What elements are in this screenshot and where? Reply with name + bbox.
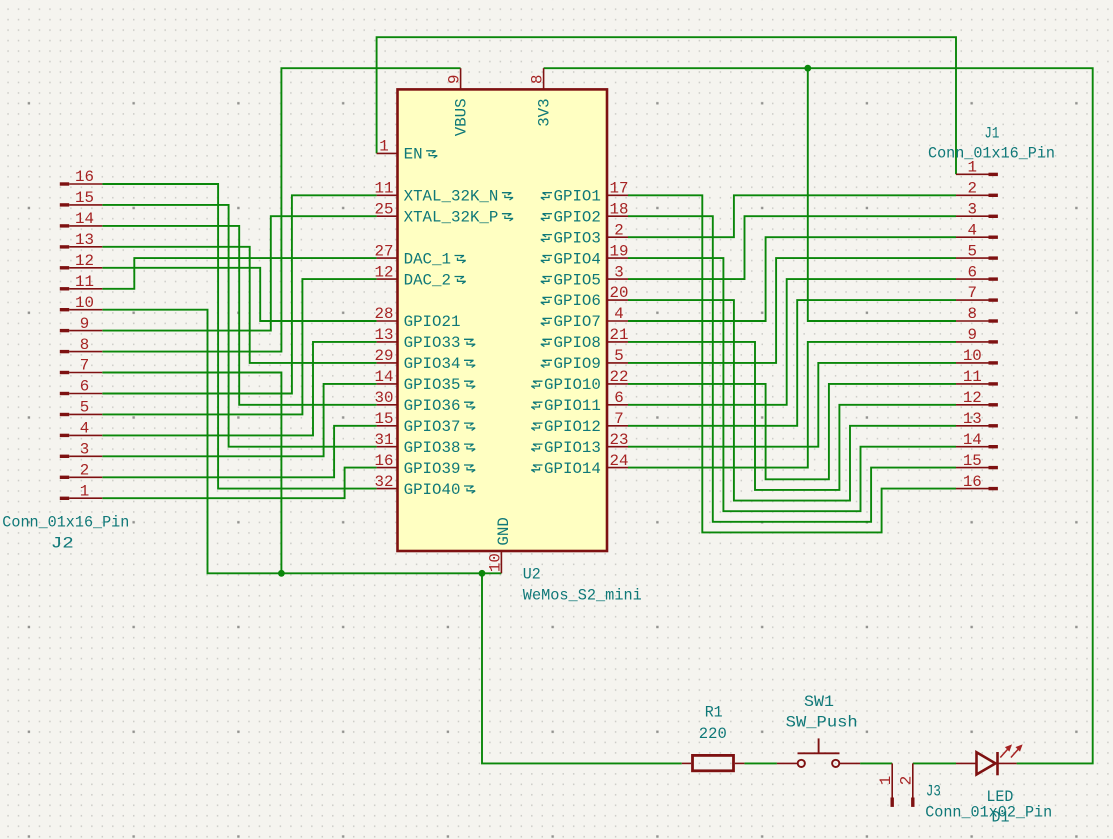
svg-text:7: 7: [80, 357, 89, 375]
svg-text:11: 11: [963, 368, 982, 386]
svg-text:J3: J3: [926, 783, 941, 801]
svg-text:SW1: SW1: [804, 693, 834, 711]
svg-text:30: 30: [375, 389, 394, 407]
svg-text:3V3: 3V3: [535, 98, 553, 126]
svg-text:10: 10: [75, 294, 94, 312]
svg-text:9: 9: [968, 326, 977, 344]
svg-text:1: 1: [80, 482, 89, 500]
svg-text:Conn_01x16_Pin: Conn_01x16_Pin: [2, 513, 129, 531]
svg-text:11: 11: [75, 273, 94, 291]
svg-text:15: 15: [75, 189, 94, 207]
svg-text:D1: D1: [992, 809, 1010, 827]
svg-text:XTAL_32K_N: XTAL_32K_N: [404, 188, 499, 206]
svg-text:Conn_01x16_Pin: Conn_01x16_Pin: [928, 145, 1055, 163]
svg-text:8: 8: [968, 305, 977, 323]
svg-text:18: 18: [610, 200, 629, 218]
svg-text:GPIO5: GPIO5: [553, 271, 600, 289]
svg-text:GPIO35: GPIO35: [404, 376, 461, 394]
svg-text:GPIO21: GPIO21: [404, 313, 461, 331]
svg-text:31: 31: [375, 431, 394, 449]
svg-text:GPIO8: GPIO8: [553, 334, 600, 352]
svg-text:XTAL_32K_P: XTAL_32K_P: [404, 208, 499, 226]
svg-text:GPIO12: GPIO12: [544, 418, 601, 436]
svg-text:6: 6: [968, 263, 977, 281]
svg-text:16: 16: [375, 452, 394, 470]
svg-text:19: 19: [610, 242, 629, 260]
svg-text:GPIO3: GPIO3: [553, 229, 600, 247]
svg-text:Conn_01x02_Pin: Conn_01x02_Pin: [925, 804, 1052, 822]
svg-text:10: 10: [963, 347, 982, 365]
svg-text:VBUS: VBUS: [452, 98, 470, 136]
svg-text:GPIO38: GPIO38: [404, 439, 461, 457]
svg-text:GPIO36: GPIO36: [404, 397, 461, 415]
svg-text:3: 3: [968, 200, 977, 218]
svg-text:GPIO39: GPIO39: [404, 460, 461, 478]
svg-text:4: 4: [968, 221, 977, 239]
svg-text:GPIO40: GPIO40: [404, 481, 461, 499]
svg-text:5: 5: [80, 399, 89, 417]
svg-text:14: 14: [963, 431, 982, 449]
svg-text:9: 9: [80, 315, 89, 333]
svg-text:GPIO34: GPIO34: [404, 355, 461, 373]
svg-text:EN: EN: [404, 146, 423, 164]
svg-text:14: 14: [75, 210, 94, 228]
svg-text:6: 6: [80, 378, 89, 396]
svg-text:21: 21: [610, 326, 629, 344]
svg-text:LED: LED: [986, 788, 1013, 806]
svg-text:GPIO14: GPIO14: [544, 460, 601, 478]
svg-text:16: 16: [75, 168, 94, 186]
svg-text:4: 4: [80, 420, 89, 438]
svg-text:GPIO13: GPIO13: [544, 439, 601, 457]
svg-text:13: 13: [75, 231, 94, 249]
svg-text:2: 2: [968, 180, 977, 198]
svg-text:4: 4: [614, 305, 623, 323]
svg-text:SW_Push: SW_Push: [786, 714, 858, 732]
svg-text:25: 25: [375, 200, 394, 218]
svg-text:J1: J1: [984, 124, 999, 142]
svg-text:GPIO1: GPIO1: [553, 188, 600, 206]
svg-text:16: 16: [963, 473, 982, 491]
svg-text:29: 29: [375, 347, 394, 365]
svg-text:8: 8: [80, 336, 89, 354]
svg-text:15: 15: [963, 452, 982, 470]
svg-text:U2: U2: [523, 565, 541, 583]
svg-text:GPIO33: GPIO33: [404, 334, 461, 352]
svg-text:13: 13: [963, 410, 982, 428]
svg-text:22: 22: [610, 368, 629, 386]
svg-text:GPIO6: GPIO6: [553, 292, 600, 310]
svg-text:13: 13: [375, 326, 394, 344]
svg-text:GPIO4: GPIO4: [553, 250, 600, 268]
svg-text:7: 7: [614, 410, 623, 428]
svg-text:J2: J2: [51, 534, 74, 552]
svg-text:1: 1: [877, 776, 895, 785]
svg-text:11: 11: [375, 180, 394, 198]
svg-text:GPIO10: GPIO10: [544, 376, 601, 394]
svg-text:32: 32: [375, 473, 394, 491]
svg-text:GPIO11: GPIO11: [544, 397, 601, 415]
svg-text:7: 7: [968, 284, 977, 302]
svg-text:GPIO37: GPIO37: [404, 418, 461, 436]
svg-text:6: 6: [614, 389, 623, 407]
svg-text:DAC_1: DAC_1: [404, 250, 451, 268]
svg-text:17: 17: [610, 180, 629, 198]
svg-text:12: 12: [375, 263, 394, 281]
svg-text:8: 8: [529, 75, 547, 84]
svg-text:14: 14: [375, 368, 394, 386]
svg-text:WeMos_S2_mini: WeMos_S2_mini: [523, 587, 642, 605]
svg-text:27: 27: [375, 242, 394, 260]
svg-text:5: 5: [968, 242, 977, 260]
svg-text:3: 3: [80, 441, 89, 459]
svg-text:12: 12: [75, 252, 94, 270]
svg-text:15: 15: [375, 410, 394, 428]
svg-text:GPIO9: GPIO9: [553, 355, 600, 373]
svg-text:23: 23: [610, 431, 629, 449]
svg-text:3: 3: [614, 263, 623, 281]
svg-text:2: 2: [80, 462, 89, 480]
svg-text:5: 5: [614, 347, 623, 365]
svg-text:9: 9: [446, 75, 464, 84]
svg-text:GPIO2: GPIO2: [553, 208, 600, 226]
svg-text:1: 1: [379, 138, 388, 156]
svg-text:R1: R1: [705, 704, 723, 722]
svg-text:DAC_2: DAC_2: [404, 271, 451, 289]
svg-text:12: 12: [963, 389, 982, 407]
svg-text:GND: GND: [495, 517, 513, 545]
svg-text:28: 28: [375, 305, 394, 323]
svg-text:24: 24: [610, 452, 629, 470]
svg-text:GPIO7: GPIO7: [553, 313, 600, 331]
svg-text:10: 10: [487, 553, 505, 572]
svg-text:220: 220: [699, 725, 727, 743]
svg-text:2: 2: [614, 221, 623, 239]
svg-text:2: 2: [898, 776, 916, 785]
svg-text:20: 20: [610, 284, 629, 302]
